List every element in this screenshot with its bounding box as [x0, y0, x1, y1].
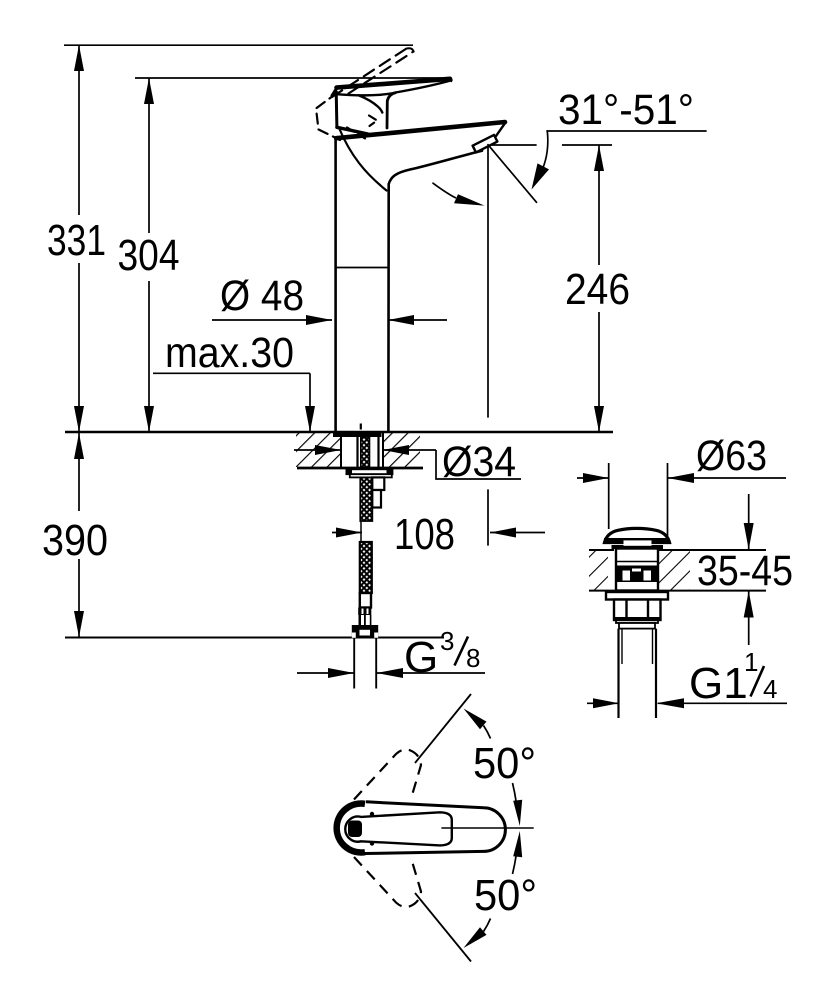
svg-text:390: 390 [42, 516, 108, 565]
svg-text:246: 246 [565, 265, 630, 314]
svg-text:331: 331 [47, 216, 106, 265]
svg-text:max.30: max.30 [165, 329, 294, 377]
svg-text:4: 4 [763, 674, 777, 704]
svg-text:35-45: 35-45 [697, 547, 793, 595]
svg-text:G: G [404, 633, 438, 682]
svg-text:G1: G1 [689, 659, 748, 708]
svg-text:1: 1 [744, 647, 758, 677]
svg-text:304: 304 [118, 231, 180, 280]
svg-text:Ø63: Ø63 [696, 432, 767, 480]
svg-text:8: 8 [466, 643, 480, 673]
svg-text:50°: 50° [473, 739, 536, 788]
svg-text:50°: 50° [474, 871, 537, 920]
svg-text:Ø 48: Ø 48 [220, 272, 304, 320]
svg-text:108: 108 [394, 510, 455, 559]
svg-text:31°-51°: 31°-51° [558, 86, 694, 134]
svg-text:3: 3 [440, 626, 454, 656]
